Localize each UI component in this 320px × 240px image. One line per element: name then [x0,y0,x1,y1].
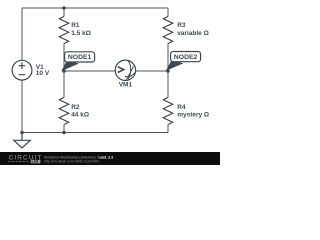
svg-text:R2: R2 [71,104,80,111]
wire middle branch [63,8,65,133]
resistor R3 [163,17,172,44]
svg-text:R4: R4 [177,104,186,111]
wire right branch [167,8,169,133]
node flag NODE1 [61,52,94,71]
svg-text:44 kΩ: 44 kΩ [71,112,89,119]
resistor R4 [163,98,172,125]
ground [14,133,30,148]
wire left branch upper [21,8,23,60]
svg-text:mystery Ω: mystery Ω [177,112,209,119]
voltmeter VM1 [115,60,135,80]
svg-text:10 V: 10 V [36,70,50,77]
footer bar [0,152,220,165]
node junction dot bottom left [20,131,24,135]
resistor R2 [59,98,68,125]
node junction dot NODE2 [166,69,170,73]
svg-text:http://circuitlab.com/c6b5c7ea: http://circuitlab.com/c6b5c7ea63780/ [44,159,99,163]
svg-text:NODE2: NODE2 [174,54,198,61]
node junction dot top [62,6,66,10]
node junction dot NODE1 [62,69,66,73]
wire middle horizontal (voltmeter) [64,70,168,72]
resistor R1 [59,17,68,44]
wire bottom rail [22,132,168,134]
footer logo CIRCUIT LAB [8,155,42,164]
svg-text:LAB: LAB [32,160,39,164]
wire top rail [22,7,168,9]
svg-text:variable Ω: variable Ω [177,30,209,37]
wire left branch lower [21,80,23,132]
svg-text:NODE1: NODE1 [68,54,92,61]
voltage source V1 [12,60,32,80]
svg-text:R3: R3 [177,22,186,29]
svg-text:1.5 kΩ: 1.5 kΩ [71,30,91,37]
svg-text:R1: R1 [71,22,80,29]
node flag NODE2 [166,52,201,71]
node junction dot bottom middle [62,131,66,135]
svg-text:VM1: VM1 [119,82,133,89]
